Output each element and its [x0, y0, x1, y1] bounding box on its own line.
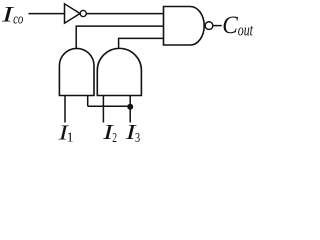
junction dot on I3 net — [127, 104, 133, 110]
node I2 label — [102, 120, 117, 145]
wire NAND output to Cout — [213, 25, 222, 27]
node Cout label — [222, 11, 254, 39]
wire inverter output to NAND top input — [86, 13, 163, 15]
node I1 label — [58, 121, 74, 144]
svg-text:2: 2 — [112, 130, 117, 145]
svg-text:1: 1 — [67, 130, 74, 145]
wire Ico to inverter input — [29, 13, 65, 15]
node I3 label — [125, 120, 140, 146]
wire A2 right input to I3 — [129, 96, 131, 123]
wire A2 left input to I2 — [102, 96, 104, 123]
svg-text:out: out — [238, 20, 254, 39]
wire A1 right input stub down — [87, 96, 89, 107]
AND gate A2 (right) — [97, 48, 141, 95]
AND gate A1 (left) — [59, 48, 94, 95]
svg-text:3: 3 — [135, 131, 140, 146]
node Ico label — [1, 2, 24, 27]
inverter (NOT gate) — [65, 4, 87, 23]
wire A1 output to NAND middle input — [76, 26, 163, 48]
wire A2 output to NAND bottom input — [119, 38, 164, 48]
svg-text:co: co — [13, 12, 24, 28]
svg-text:C: C — [222, 11, 238, 39]
NAND gate — [164, 7, 213, 46]
wire A1 right input to I3 net — [88, 105, 131, 107]
wire A1 left input to I1 — [64, 96, 66, 123]
